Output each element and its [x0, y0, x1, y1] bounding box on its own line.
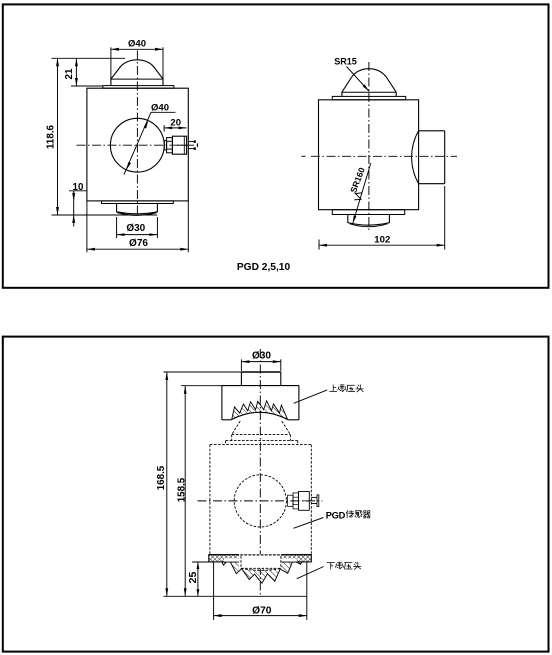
top panel frame	[3, 4, 549, 287]
load cell bottom flange section (crosshatched)	[209, 555, 311, 562]
dimension 168.5: dimension line	[165, 372, 168, 596]
label SR160 leader	[353, 163, 371, 223]
bottom flange hidden edge	[224, 554, 297, 556]
dimension 25: dimension line	[197, 562, 200, 596]
svg-text:Ø40: Ø40	[128, 39, 146, 50]
front view body	[87, 88, 188, 201]
dimension 158.5: dimension line	[184, 386, 187, 597]
assembly cable gland washer	[288, 495, 293, 506]
dimension 20: dimension line	[164, 127, 186, 130]
svg-text:Ø76: Ø76	[129, 238, 148, 249]
assembly cable gland barrel	[299, 492, 310, 511]
dimension 158.5: top extension line	[181, 385, 222, 387]
front view top dome (load button)	[111, 60, 163, 86]
dimension Ø40 top: dimension line	[111, 48, 163, 51]
svg-text:Ø30: Ø30	[252, 351, 271, 362]
svg-text:Ø30: Ø30	[126, 223, 145, 234]
label PGD transducer text	[326, 510, 371, 520]
svg-text:SR160: SR160	[348, 166, 367, 194]
dimension 25: extension line	[192, 561, 214, 563]
svg-text:20: 20	[170, 118, 181, 129]
dimension Ø70: dimension line	[214, 614, 307, 617]
front view center hole circle	[110, 118, 164, 172]
cable pins	[188, 140, 197, 149]
assembly vertical center line	[259, 349, 261, 596]
dimension Ø30: extension lines	[117, 217, 158, 238]
load cell body hidden outline	[210, 445, 311, 555]
dimension 118.6: extension lines	[52, 58, 158, 215]
svg-text:Ø40: Ø40	[151, 102, 169, 113]
svg-text:PGD 2,5,10: PGD 2,5,10	[237, 262, 291, 273]
dimension 21: extension line	[71, 85, 103, 87]
dimension Ø76: dimension line	[87, 248, 188, 251]
upper head broken section hatch	[232, 401, 288, 420]
svg-text:25: 25	[187, 572, 199, 584]
side view vertical center line	[368, 62, 370, 232]
assembly cable gland nut	[293, 493, 299, 509]
flange section relief (half-height hatch middle)	[224, 558, 297, 561]
label SR15 leader	[347, 67, 370, 92]
side view connector boss	[412, 131, 445, 184]
label PGD transducer leader	[294, 518, 324, 529]
label upper bearing head (shang cheng ya tou)	[330, 385, 364, 392]
side view bottom boss	[348, 215, 390, 227]
front view vertical center line	[136, 51, 138, 218]
load cell top flange hidden outline	[226, 441, 298, 445]
front view horizontal center line	[77, 144, 201, 146]
svg-text:158.5: 158.5	[176, 477, 187, 502]
svg-text:SR15: SR15	[334, 56, 357, 66]
assembly cable pin	[311, 495, 319, 507]
svg-text:21: 21	[64, 68, 75, 79]
cable gland washer	[164, 141, 166, 150]
svg-text:PGD: PGD	[326, 510, 346, 520]
dimension 102: extension lines	[319, 186, 445, 250]
dimension Ø40 hole: leader line	[124, 112, 176, 174]
bottom panel frame	[3, 337, 549, 652]
front view bottom boss	[117, 204, 158, 216]
dimension 10: leader shelf	[69, 190, 87, 192]
load cell hole hidden circle	[234, 475, 286, 527]
dimension 20: extension line	[163, 125, 165, 131]
svg-text:Ø70: Ø70	[252, 606, 272, 617]
bottom flange section top edges	[209, 554, 311, 556]
dimension Ø40 top: extension lines	[111, 47, 163, 79]
dimension Ø30: dimension line	[117, 233, 158, 236]
label upper bearing head leader	[294, 390, 328, 403]
label lower bearing head leader	[297, 567, 324, 579]
side view top dome	[342, 69, 396, 97]
svg-text:118.6: 118.6	[45, 124, 56, 149]
dimension Ø30 stem: dimension line	[241, 360, 280, 363]
bottom boss recess (hidden)	[239, 554, 282, 570]
cable gland barrel	[172, 136, 186, 154]
dimension 118.6: dimension line	[56, 58, 59, 215]
dimension 168.5: top extension line	[164, 371, 242, 373]
front view bottom flange plate	[102, 201, 174, 204]
side view bottom flange plate	[332, 210, 404, 215]
dimension 21: dimension line	[75, 58, 78, 86]
upper bearing head stem	[241, 372, 280, 386]
side view top flange plate	[332, 96, 405, 99]
side view horizontal center line	[302, 155, 458, 157]
load cell dome top arc (visible)	[232, 412, 288, 419]
lower bearing head outline	[164, 562, 307, 620]
front view top flange plate	[103, 86, 174, 89]
load cell dome hidden outline	[232, 421, 291, 441]
dimension 102: dimension line	[319, 244, 445, 247]
upper bearing head block	[222, 386, 299, 420]
side view body	[319, 100, 419, 210]
dimension Ø30 stem: extension lines	[241, 359, 280, 371]
dimension 10: dimension line	[72, 191, 75, 227]
lower head broken section hatch	[222, 559, 302, 583]
cable gland nut	[167, 138, 173, 153]
svg-text:168.5: 168.5	[156, 465, 167, 490]
dimension Ø76: extension lines	[87, 201, 188, 252]
label lower bearing head (xia cheng ya tou)	[327, 562, 361, 569]
svg-text:102: 102	[374, 234, 390, 245]
assembly horizontal center line	[198, 500, 323, 502]
